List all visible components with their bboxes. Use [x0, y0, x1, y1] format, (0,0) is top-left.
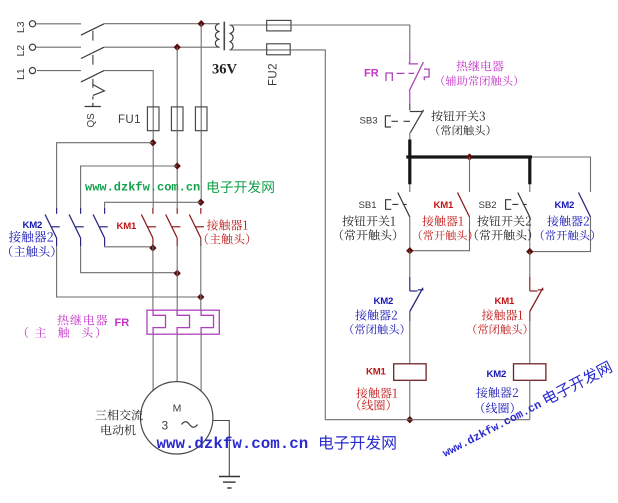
coil KM2 — [514, 364, 546, 381]
bus bar — [406, 155, 532, 158]
wire SB2 branch down — [529, 252, 531, 277]
wire phase C above FU1 — [200, 24, 202, 107]
label KM2 aux type — [541, 230, 594, 241]
wire bottom rail — [325, 419, 530, 421]
label KM1 main-contact — [205, 233, 249, 244]
svg-text:3: 3 — [161, 419, 168, 433]
wire SB1 branch down — [409, 251, 411, 277]
node join B — [174, 270, 181, 277]
label SB2 type — [475, 229, 531, 240]
wire phase B FU1 to KM1 — [176, 131, 178, 208]
svg-text:KM1: KM1 — [495, 296, 516, 307]
wire L3 to QS — [36, 23, 81, 25]
svg-text:FU2: FU2 — [268, 63, 280, 86]
terminal L1 — [15, 68, 36, 80]
wire tap A to KM2-1 — [57, 143, 153, 208]
wire tap B to KM2-2 — [81, 166, 178, 208]
label KM1 contactor1 — [207, 219, 248, 230]
wire bus to KM2 branch — [532, 157, 591, 192]
terminal L2 — [15, 44, 36, 56]
contactor KM2 auxiliary NO contact — [579, 192, 591, 217]
svg-text:36V: 36V — [212, 62, 238, 78]
svg-text:KM2: KM2 — [374, 296, 394, 307]
svg-text:L1: L1 — [15, 68, 27, 80]
wire phase A FU1 to KM1 — [152, 131, 154, 208]
svg-text:SB1: SB1 — [359, 200, 377, 211]
watermark blue bottom — [157, 435, 396, 453]
wire KM1 NC to coil KM2 — [529, 312, 531, 364]
wire coil KM2 to rail — [529, 380, 531, 419]
label KM1 coil type — [357, 399, 389, 410]
transformer T1 36V — [215, 22, 233, 51]
label KM1 aux type — [419, 230, 472, 240]
label KM2 nc name — [355, 309, 397, 320]
node SB2-KM2 join — [526, 248, 533, 255]
wire FR contact approach — [409, 53, 411, 63]
wire phase C to FR — [200, 238, 202, 310]
wire SB2 down — [529, 217, 531, 252]
wire KM2-2 to phase B — [81, 246, 178, 273]
ground — [219, 477, 240, 489]
svg-text:SB2: SB2 — [479, 200, 497, 211]
svg-text:KM2: KM2 — [555, 200, 575, 211]
watermark blue diagonal — [439, 360, 613, 461]
svg-text:FU1: FU1 — [118, 114, 141, 126]
wire KM2 aux to SB2 — [530, 217, 591, 252]
label KM2 contactor2 — [9, 231, 53, 243]
svg-text:KM2: KM2 — [487, 369, 507, 380]
wire L1 to FU1 — [104, 71, 153, 107]
label KM1 nc type — [473, 324, 526, 335]
wire phase C FU1 to KM1 — [200, 131, 202, 203]
wire tap C to KM2-3 — [105, 202, 201, 208]
wire secondary top — [230, 24, 267, 26]
fuse FU1 (3x) — [118, 107, 207, 131]
wire KM1 aux to SB1 — [410, 217, 470, 251]
label KM1 aux name — [422, 215, 463, 226]
svg-text:KM1: KM1 — [434, 200, 455, 211]
label KM2 coil type — [481, 402, 513, 413]
wire L1 to QS — [37, 70, 81, 72]
wire L3 to transformer — [104, 23, 220, 25]
node tap C — [197, 199, 204, 206]
wire phase B above FU1 — [176, 47, 178, 107]
wire KM2 NC to coil KM1 — [409, 312, 411, 364]
wire SB3 to bus — [409, 132, 411, 140]
wire L2 to transformer — [104, 46, 220, 48]
label FR aux name — [456, 60, 503, 71]
fuse FU2 top — [267, 20, 291, 31]
wire top rail to FR contact — [291, 25, 410, 54]
wire coil KM1 to rail — [409, 380, 411, 419]
label SB3 type — [436, 125, 489, 136]
svg-text:SB3: SB3 — [360, 116, 378, 127]
wire motor to ground — [213, 421, 229, 477]
label SB3 name — [431, 110, 485, 121]
label KM2 main-contact — [9, 246, 54, 258]
node SB1-KM1 join — [406, 247, 413, 254]
thermal relay FR heater element — [147, 310, 219, 334]
node coil KM1 rail — [406, 416, 413, 423]
terminal L3 — [15, 21, 36, 33]
node tap B — [174, 162, 181, 169]
label KM2 nc type — [350, 324, 403, 335]
bus stub SB2 — [528, 157, 531, 184]
label SB1 type — [340, 229, 396, 240]
wire left rail — [290, 50, 325, 420]
wire motor lead B — [176, 334, 178, 384]
motor M 3~ — [141, 382, 213, 454]
svg-text:QS: QS — [86, 113, 97, 128]
contactor KM1 main contacts — [141, 208, 204, 246]
node L3 tap — [198, 20, 205, 27]
push button SB3 NC contact — [385, 110, 423, 133]
wire KM2-1 to phase C — [57, 246, 201, 297]
wire motor lead A — [152, 334, 154, 396]
push button SB2 NO contact — [506, 184, 530, 217]
node join C — [197, 293, 204, 300]
watermark green — [85, 180, 274, 194]
svg-text:L3: L3 — [15, 21, 27, 33]
node bus KM1 — [466, 153, 473, 160]
coil KM1 — [394, 364, 426, 381]
svg-text:L2: L2 — [15, 45, 27, 57]
wire phase A to FR — [152, 246, 154, 310]
node L2 tap — [174, 44, 181, 51]
label KM2 coil name — [476, 387, 518, 398]
label motor line1 — [95, 409, 142, 420]
label SB1 name — [342, 215, 395, 226]
label KM1 coil name — [356, 387, 397, 398]
contactor KM1 NC interlock contact — [530, 277, 544, 321]
label motor line2 — [102, 424, 136, 435]
disconnect switch QS — [81, 24, 104, 128]
label KM2 aux name — [547, 215, 589, 226]
wire phase B to FR — [176, 246, 178, 310]
fuse FU2 bottom — [267, 44, 291, 55]
wire secondary bottom — [230, 49, 267, 51]
svg-text:M: M — [173, 403, 182, 415]
svg-text:www.dzkfw.com.cn: www.dzkfw.com.cn — [157, 435, 309, 453]
label FR relay — [57, 314, 107, 325]
wire KM2-3 to phase A — [105, 245, 153, 248]
push button SB1 NO contact — [386, 184, 410, 217]
thermal relay FR auxiliary NC contact — [386, 62, 429, 110]
label FR aux type — [441, 75, 517, 86]
contactor KM1 auxiliary NO contact — [458, 157, 470, 217]
label FR main-contact — [25, 327, 28, 338]
contactor KM2 main contacts — [45, 208, 108, 246]
node join A — [149, 244, 156, 251]
label KM1 nc name — [482, 309, 523, 320]
wire L2 to QS — [36, 46, 81, 48]
wire SB1 down — [409, 217, 411, 251]
svg-text:KM1: KM1 — [366, 366, 387, 377]
svg-text:FR: FR — [364, 68, 379, 80]
svg-text:FR: FR — [115, 317, 130, 329]
node tap A — [149, 139, 156, 146]
svg-text:KM1: KM1 — [117, 221, 138, 232]
svg-text:www.dzkfw.com.cn: www.dzkfw.com.cn — [85, 181, 200, 195]
svg-text:KM2: KM2 — [23, 220, 43, 231]
wire motor lead C — [200, 334, 202, 396]
bus stub SB1 — [408, 157, 411, 184]
contactor KM2 NC interlock contact — [410, 277, 424, 321]
label SB2 name — [477, 215, 531, 226]
